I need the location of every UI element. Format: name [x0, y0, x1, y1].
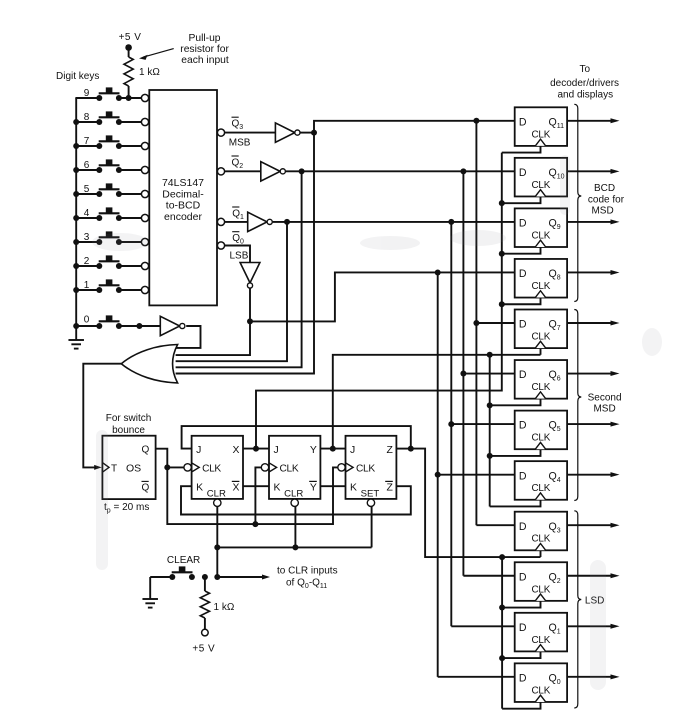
- svg-text:Z: Z: [386, 483, 393, 494]
- inverter U2d (bit0, points down): [240, 263, 260, 289]
- svg-text:D: D: [519, 521, 527, 533]
- svg-text:MSD: MSD: [593, 404, 615, 415]
- brace group MSD: [574, 104, 581, 301]
- wire Q1-bar output to inverter: [225, 221, 248, 223]
- D flip-flop Q8: [515, 259, 567, 298]
- svg-text:D: D: [519, 622, 527, 634]
- label R2 value: [214, 602, 235, 613]
- svg-text:0: 0: [84, 315, 90, 326]
- label BCD code for MSD: [588, 183, 625, 217]
- svg-text:CLK: CLK: [531, 230, 550, 241]
- wire output Q4 with arrow: [567, 472, 619, 477]
- svg-text:Second: Second: [588, 392, 622, 403]
- +5 V supply terminal (top): [119, 32, 142, 51]
- svg-text:bounce: bounce: [112, 425, 145, 436]
- svg-text:CLK: CLK: [531, 332, 550, 343]
- wire bit2 to OR gate input: [176, 171, 302, 367]
- svg-text:D: D: [519, 369, 527, 381]
- svg-text:CLK: CLK: [356, 463, 375, 474]
- wire output Q10 with arrow: [567, 169, 619, 174]
- svg-text:K: K: [196, 483, 203, 494]
- svg-text:Y: Y: [310, 445, 317, 456]
- wire D input Q1: [451, 625, 516, 627]
- wire Q3-bar output to inverter: [225, 132, 275, 134]
- svg-text:5: 5: [84, 184, 90, 195]
- wire key row 7: [75, 145, 145, 147]
- inverter U2b (bit2): [261, 162, 286, 181]
- wire Z feedback to J of X: [182, 426, 411, 449]
- svg-text:LSB: LSB: [230, 250, 249, 261]
- wire bit1 to OR gate input: [176, 222, 287, 361]
- encoder output pin Q0-bar / LSB: [217, 232, 248, 262]
- svg-text:CLEAR: CLEAR: [167, 555, 200, 566]
- wire +5V lead to resistor: [128, 48, 130, 99]
- wire output Q2 with arrow: [567, 573, 619, 578]
- wire key row 4: [75, 217, 145, 219]
- svg-text:Digit keys: Digit keys: [56, 71, 99, 82]
- svg-text:decoder/drivers: decoder/drivers: [550, 78, 619, 89]
- key switch 1: [73, 279, 148, 293]
- wire output Q9 with arrow: [567, 219, 619, 224]
- wire Y-bar to K of Z: [320, 485, 345, 487]
- svg-text:D: D: [519, 571, 527, 583]
- ground (CLEAR): [142, 577, 158, 608]
- OR gate U3 (5-input, points left): [121, 345, 177, 383]
- wire output Q0 with arrow: [567, 674, 619, 679]
- encoder output pin Q3-bar / MSB: [217, 117, 250, 148]
- label Second MSD: [588, 392, 622, 414]
- svg-text:X: X: [232, 445, 239, 456]
- svg-text:code for: code for: [588, 194, 625, 205]
- wire key row 9: [75, 97, 145, 99]
- wire X-bar to K of Y: [243, 485, 269, 487]
- svg-text:D: D: [519, 672, 527, 684]
- wire output Q6 with arrow: [567, 371, 619, 376]
- wire D input Q2: [463, 575, 516, 577]
- wire output Q8 with arrow: [567, 270, 619, 275]
- svg-text:1 kΩ: 1 kΩ: [214, 602, 235, 613]
- svg-text:CLK: CLK: [531, 685, 550, 696]
- inverter U2e (key 0 row): [160, 316, 185, 335]
- svg-text:3: 3: [84, 232, 90, 243]
- svg-text:8: 8: [84, 112, 90, 123]
- svg-text:For switch: For switch: [106, 413, 152, 424]
- brace group second MSD: [574, 310, 581, 501]
- key switch 8: [73, 111, 148, 125]
- svg-text:CLR: CLR: [284, 489, 303, 500]
- label For switch bounce: [106, 413, 152, 436]
- svg-text:CLK: CLK: [202, 463, 221, 474]
- D flip-flop Q9: [515, 208, 567, 247]
- wire inverter2 output to Q10 D line (bit2): [286, 168, 517, 174]
- svg-text:Decimal-: Decimal-: [162, 188, 204, 200]
- label +5 V (bottom): [192, 644, 215, 655]
- wire CLR branch to Y CLR and Z SET: [217, 506, 371, 550]
- wire key0 inverter output to OR gate input: [176, 326, 201, 348]
- label tp = 20 ms: [104, 502, 149, 515]
- key switch 5: [73, 183, 148, 197]
- wire output Q5 with arrow: [567, 422, 619, 427]
- wire D input Q4: [438, 474, 517, 476]
- svg-text:CLK: CLK: [531, 129, 550, 140]
- svg-text:D: D: [519, 470, 527, 482]
- svg-text:OS: OS: [126, 462, 141, 474]
- wire group2 clock branches: [487, 348, 541, 506]
- svg-text:J: J: [274, 445, 279, 456]
- svg-text:J: J: [196, 445, 201, 456]
- wire X CLR to CLEAR line: [214, 506, 220, 577]
- svg-text:BCD: BCD: [594, 183, 615, 194]
- label LSD: [585, 596, 604, 607]
- scan smudge artifacts (decorative): [92, 155, 662, 690]
- label CLEAR: [167, 555, 200, 566]
- wire CLEAR row: [150, 576, 170, 578]
- wire key row 2: [75, 265, 145, 267]
- svg-text:each input: each input: [181, 55, 229, 66]
- svg-text:CLK: CLK: [531, 584, 550, 595]
- svg-text:K: K: [274, 483, 281, 494]
- svg-text:SET: SET: [361, 489, 380, 500]
- D flip-flop Q5: [515, 411, 567, 450]
- wire output Q3 with arrow: [567, 523, 619, 528]
- svg-text:Q: Q: [142, 445, 150, 456]
- svg-text:Y: Y: [310, 483, 317, 494]
- wire group1 clock branches: [499, 146, 541, 307]
- svg-text:to-BCD: to-BCD: [166, 200, 201, 212]
- JK flip-flop X: [184, 436, 243, 507]
- D flip-flop Q7: [515, 310, 567, 349]
- brace group LSD: [574, 511, 581, 708]
- wire bit0 feed vertical: [435, 272, 441, 676]
- wire to CLR inputs arrow: [214, 574, 270, 580]
- svg-text:Q: Q: [142, 483, 150, 494]
- wire key row 5: [75, 193, 145, 195]
- svg-text:74LS147: 74LS147: [162, 177, 204, 189]
- wire X riser to group1 clock bus: [256, 153, 502, 449]
- wire key row 3: [75, 241, 145, 243]
- wire group3 clock branches: [499, 550, 540, 708]
- D flip-flop Q2: [515, 562, 567, 601]
- wire inverter1 output to Q11 D line (MSB bit3): [300, 118, 516, 136]
- 74LS147 encoder U1: [149, 90, 217, 305]
- svg-text:MSB: MSB: [229, 138, 251, 149]
- CLEAR push button: [169, 566, 195, 580]
- wire Q2-bar output to inverter: [225, 170, 261, 172]
- svg-text:CLK: CLK: [531, 382, 550, 393]
- svg-text:CLK: CLK: [531, 180, 550, 191]
- wire D input Q7: [476, 322, 516, 324]
- D flip-flop Q0: [515, 663, 567, 702]
- label to CLR inputs of Q0-Q11: [277, 566, 338, 591]
- wire output Q11 with arrow: [567, 118, 619, 123]
- svg-text:1 kΩ: 1 kΩ: [139, 67, 160, 78]
- wire output Q1 with arrow: [567, 624, 619, 629]
- svg-text:+5 V: +5 V: [119, 32, 142, 43]
- svg-text:encoder: encoder: [164, 211, 202, 223]
- svg-text:D: D: [519, 268, 527, 280]
- key switch 9: [84, 87, 149, 101]
- svg-text:D: D: [519, 319, 527, 331]
- encoder output pin Q1-bar: [217, 207, 244, 225]
- wire bit3 feed vertical: [473, 121, 479, 525]
- key switch 0: [73, 315, 122, 330]
- svg-text:D: D: [519, 420, 527, 432]
- svg-text:tp = 20 ms: tp = 20 ms: [104, 502, 149, 515]
- svg-text:CLK: CLK: [531, 635, 550, 646]
- inverter U2a (bit3): [275, 123, 300, 142]
- label To decoder/drivers and displays: [550, 64, 619, 101]
- svg-text:Pull-up: Pull-up: [188, 33, 220, 44]
- wire D input Q0: [438, 676, 517, 678]
- svg-text:J: J: [350, 445, 355, 456]
- wire D input Q6: [463, 373, 516, 375]
- svg-text:D: D: [519, 218, 527, 230]
- svg-text:1: 1: [84, 280, 90, 291]
- svg-text:CLK: CLK: [531, 433, 550, 444]
- D flip-flop Q6: [515, 360, 567, 399]
- ground (digit keys): [68, 340, 84, 349]
- wire D input Q3: [476, 524, 516, 526]
- svg-text:to CLR inputs: to CLR inputs: [277, 566, 338, 577]
- resistor R2 1 kOhm pull-up (CLEAR): [200, 574, 209, 636]
- wire inverter4 output to Q8 D line (LSB bit0): [247, 269, 517, 324]
- svg-text:7: 7: [84, 136, 90, 147]
- label R1 value: [139, 67, 160, 78]
- svg-text:4: 4: [84, 208, 90, 219]
- svg-text:CLK: CLK: [531, 534, 550, 545]
- svg-text:CLR: CLR: [207, 489, 226, 500]
- svg-text:To: To: [580, 64, 591, 75]
- wire bit0 to OR gate input: [176, 321, 250, 355]
- svg-text:X: X: [232, 483, 239, 494]
- wire X output to J of Y: [243, 446, 269, 452]
- svg-text:9: 9: [84, 88, 90, 99]
- svg-text:CLK: CLK: [531, 281, 550, 292]
- wire bit2 feed vertical: [460, 171, 466, 575]
- wire Y riser to group2 clock bus: [333, 352, 541, 507]
- wire OR output to one-shot T input: [83, 364, 121, 470]
- wire Z-bar feedback to K of X: [181, 486, 411, 514]
- wire output Q7 with arrow: [567, 321, 619, 326]
- wire bit1 feed vertical: [448, 222, 454, 626]
- svg-text:CLK: CLK: [280, 463, 299, 474]
- note pull-up resistor for each input: [139, 33, 229, 66]
- key switch 3: [73, 231, 148, 245]
- svg-text:resistor for: resistor for: [180, 44, 229, 55]
- svg-text:and displays: and displays: [558, 90, 614, 101]
- D flip-flop Q10: [515, 158, 567, 197]
- svg-text:2: 2: [84, 256, 90, 267]
- one-shot OS (for switch bounce): [102, 436, 155, 499]
- encoder output pin Q2-bar: [217, 156, 243, 175]
- JK flip-flop Z: [338, 436, 397, 507]
- wire inverter3 output to Q9 D line (bit1): [273, 219, 517, 225]
- svg-text:D: D: [519, 167, 527, 179]
- key switch 7: [73, 135, 148, 149]
- D flip-flop Q3: [515, 512, 567, 551]
- svg-text:K: K: [350, 483, 357, 494]
- key switch 2: [73, 255, 148, 269]
- svg-text:CLK: CLK: [531, 483, 550, 494]
- D flip-flop Q1: [515, 613, 567, 652]
- inverter U2c (bit1): [248, 212, 273, 231]
- D flip-flop Q4: [515, 461, 567, 500]
- svg-text:6: 6: [84, 160, 90, 171]
- wire Z output to group3 clock bus: [396, 446, 540, 709]
- svg-text:T: T: [111, 463, 117, 474]
- D flip-flop Q11: [515, 107, 567, 146]
- wire key row 8: [75, 121, 145, 123]
- key switch 6: [73, 159, 148, 173]
- wire Y output to J of Z: [320, 446, 345, 452]
- wire clock to X CLK, Y CLK, Z CLK: [156, 449, 339, 527]
- svg-text:MSD: MSD: [591, 206, 613, 217]
- svg-text:D: D: [519, 116, 527, 128]
- svg-text:+5 V: +5 V: [192, 644, 215, 655]
- key switch 4: [73, 207, 148, 221]
- JK flip-flop Y: [261, 436, 320, 507]
- pull-up junction dot row 9: [126, 95, 132, 101]
- svg-text:Z: Z: [386, 445, 393, 456]
- resistor R1 1 kOhm pull-up: [124, 57, 133, 86]
- wire key row 1: [75, 289, 145, 291]
- wire D input Q5: [451, 423, 516, 425]
- wire left key bus: [75, 98, 77, 340]
- wire key row 6: [75, 169, 145, 171]
- wire Q0-bar output to down inverter: [225, 246, 250, 263]
- wire bit3 to OR gate input: [176, 133, 314, 374]
- wire key row 0: [75, 323, 160, 329]
- label Digit keys: [56, 71, 99, 82]
